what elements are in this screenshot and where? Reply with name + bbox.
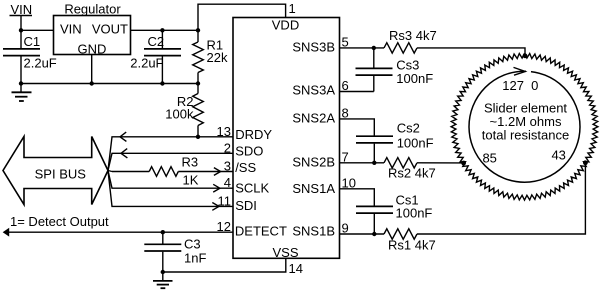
slider inner circle with direction arrow [469,71,580,182]
svg-text:SCLK: SCLK [235,181,269,196]
capacitor C2 [160,28,164,32]
svg-text:9: 9 [342,221,349,236]
svg-text:SNS2A: SNS2A [292,110,335,125]
svg-text:Rs3 4k7: Rs3 4k7 [389,28,437,43]
svg-text:12: 12 [217,219,231,234]
wire SNS3B pin 5 [340,47,385,49]
wire VIN junction to regulator input [21,29,54,31]
wire Rs1 to slider right [417,163,585,234]
svg-text:Rs2 4k7: Rs2 4k7 [388,166,436,181]
svg-text:0: 0 [531,78,538,93]
svg-text:5: 5 [342,35,349,50]
svg-text:Regulator: Regulator [64,2,121,17]
svg-text:VOUT: VOUT [92,21,128,36]
op IC U1 box [233,18,340,259]
node junction R1/R2/rail [196,81,200,85]
svg-text:C3: C3 [184,237,201,252]
svg-text:6: 6 [342,78,349,93]
svg-text:1K: 1K [183,173,199,188]
capacitor C1 [20,30,22,48]
svg-text:SNS2B: SNS2B [292,154,335,169]
svg-text:1nF: 1nF [184,251,206,266]
node junction C3/VSS [161,270,165,274]
svg-text:1: 1 [289,1,296,16]
svg-text:4: 4 [224,175,231,190]
node junction C2/rail [160,81,164,85]
svg-text:SPI BUS: SPI BUS [35,166,87,181]
svg-text:14: 14 [289,261,303,276]
capacitor Cs2 [356,135,393,137]
capacitor C3 [161,230,165,234]
wire SNS2B pin 7 [340,162,385,164]
node junction C1/rail [19,81,23,85]
svg-text:3: 3 [224,159,231,174]
svg-text:GND: GND [78,41,107,56]
slider element resistive ring [451,53,598,200]
svg-text:SNS1A: SNS1A [292,181,335,196]
resistor Rs2 [384,158,417,168]
capacitor Cs1 [356,205,393,207]
wire Rs2 to slider left [417,162,464,164]
wire VSS pin 14 [163,258,286,272]
node junction VIN/C1 [19,28,23,32]
ground at C3/VSS [162,272,164,281]
ground under C1 [20,84,22,93]
resistor R1 [196,28,200,32]
wire SNS3A pin 6 [340,91,374,93]
svg-text:R3: R3 [182,155,199,170]
svg-text:SNS1B: SNS1B [292,224,335,239]
wire DRDY pin 13 [108,137,233,171]
svg-text:C1: C1 [24,34,41,49]
svg-text:127: 127 [502,78,524,93]
svg-text:11: 11 [218,193,232,208]
svg-text:85: 85 [482,150,496,165]
svg-text:100nF: 100nF [396,206,433,221]
regulator U2 box [54,16,131,55]
svg-text:43: 43 [551,148,565,163]
wire SDI pin 11 [108,171,233,207]
svg-text:100nF: 100nF [396,71,433,86]
resistor Rs1 [384,229,417,239]
svg-text:22k: 22k [207,50,228,65]
svg-text:SNS3B: SNS3B [292,39,335,54]
svg-text:100nF: 100nF [397,135,434,150]
svg-text:/SS: /SS [235,160,256,175]
svg-text:VIN: VIN [60,21,82,36]
svg-text:2: 2 [224,140,231,155]
wire SDO pin 2 [108,153,233,170]
wire DETECT pin 12 [5,231,234,233]
wire VIN underline bar [10,15,33,17]
svg-text:Rs1 4k7: Rs1 4k7 [388,238,436,253]
SPI bus arrow [3,137,108,205]
wire SNS2A pin 8 [340,119,375,136]
svg-text:DETECT: DETECT [235,224,287,239]
resistor R2 [197,84,199,94]
svg-text:VSS: VSS [272,245,298,260]
wire SCLK pin 4 [108,171,233,189]
svg-text:C2: C2 [148,34,165,49]
svg-text:13: 13 [217,124,231,139]
resistor Rs3 [384,43,417,53]
wire /SS pin 3 with resistor R3 [108,171,112,172]
node junction GND/rail [90,81,94,85]
wire SNS1A pin 10 [340,189,375,206]
svg-text:100k: 100k [165,107,194,122]
svg-text:2.2uF: 2.2uF [130,56,163,71]
svg-text:2.2uF: 2.2uF [24,56,57,71]
svg-text:1= Detect Output: 1= Detect Output [10,214,109,229]
svg-text:7: 7 [342,149,349,164]
svg-text:SNS3A: SNS3A [292,82,335,97]
wire Rs3 to slider top [417,48,525,56]
wire VDD top rail [198,4,286,30]
wire VOUT to R1 [131,29,199,31]
svg-text:Cs2: Cs2 [397,121,420,136]
svg-text:DRDY: DRDY [235,127,272,142]
wire ground rail [21,83,198,85]
svg-text:10: 10 [342,175,356,190]
svg-text:SDO: SDO [235,143,263,158]
svg-text:VIN: VIN [11,2,33,17]
wire SNS1B pin 9 [340,233,385,235]
capacitor Cs3 [373,48,375,68]
svg-text:VDD: VDD [272,18,299,33]
wire regulator GND stub [91,55,93,84]
svg-text:8: 8 [342,106,349,121]
svg-text:total resistance: total resistance [482,127,569,142]
svg-text:SDI: SDI [235,198,257,213]
wire VIN vertical to junction [20,16,22,31]
